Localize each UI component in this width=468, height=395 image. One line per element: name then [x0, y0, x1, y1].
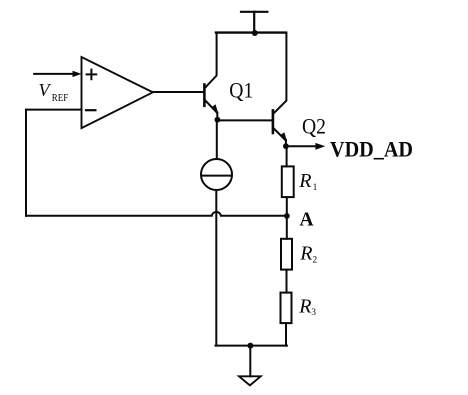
- svg-text:A: A: [300, 208, 314, 230]
- svg-text:REF: REF: [52, 93, 69, 104]
- svg-text:Q1: Q1: [229, 78, 253, 103]
- svg-text:VDD_AD: VDD_AD: [330, 136, 413, 161]
- svg-text:3: 3: [311, 308, 316, 318]
- svg-text:1: 1: [313, 183, 318, 193]
- svg-text:R: R: [298, 296, 311, 318]
- svg-text:R: R: [298, 170, 311, 192]
- svg-text:2: 2: [312, 256, 317, 266]
- svg-text:R: R: [299, 242, 312, 264]
- svg-text:Q2: Q2: [302, 114, 326, 139]
